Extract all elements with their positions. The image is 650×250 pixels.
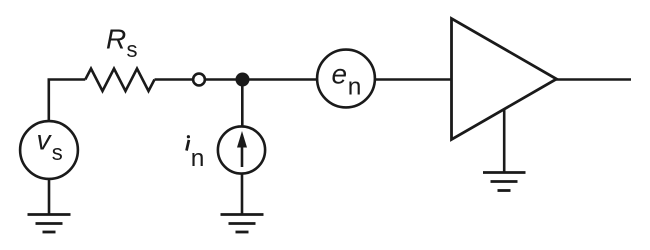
current source IN circle [218,126,265,173]
svg-text:R: R [106,24,126,55]
ground under IN [221,215,264,233]
wire: VS bottom stem to ground [48,180,51,215]
op-amp amplifier triangle [452,19,557,140]
voltage source VS circle [20,121,78,179]
wire: IN bottom stem to ground [241,174,244,214]
resistor RS zigzag [85,69,154,91]
svg-text:s: s [52,140,63,165]
wire: left corner from top wire down to voltage source [49,80,86,121]
node: junction dot [236,73,250,87]
label RS [106,24,138,62]
wire: junction dot to EN circle [249,78,317,81]
ground under amplifier [483,173,526,191]
wire: EN to amplifier input [376,78,452,81]
svg-text:s: s [127,37,138,62]
label IN [187,135,205,172]
wire: open terminal to junction dot [205,78,236,81]
svg-text:e: e [332,59,348,90]
arrow inside IN (pointing up) [241,144,244,167]
wire: junction dot down to current source [241,85,244,126]
wire: resistor to open terminal [155,78,194,81]
ground under VS [28,215,71,233]
svg-text:n: n [348,74,362,101]
wire: amplifier output [556,78,632,81]
svg-text:n: n [191,145,205,172]
wire: amplifier ground stem from hypotenuse [503,109,506,173]
node: open circle terminal [193,74,205,86]
noise voltage source EN circle [317,50,375,108]
label VS [37,125,63,166]
label EN [332,59,362,101]
svg-text:v: v [37,125,53,156]
